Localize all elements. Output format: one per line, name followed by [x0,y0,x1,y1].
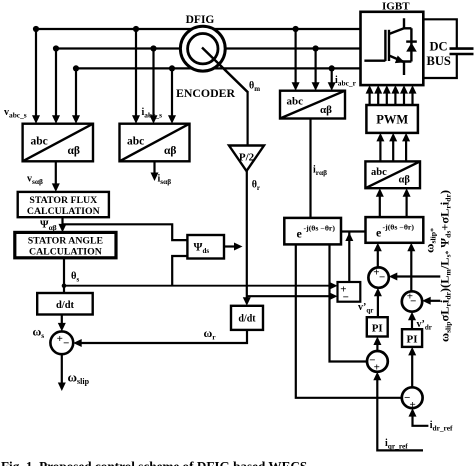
svg-text:ENCODER: ENCODER [176,88,236,100]
svg-text:αβ: αβ [68,145,80,157]
svg-text:αβ: αβ [164,145,176,157]
d/dt box middle [231,306,263,330]
arrow into abc block2 [132,115,140,124]
PWM box [366,105,418,133]
arrow into abc block3 [292,82,300,91]
wire omega_slip output [61,354,63,383]
svg-text:STATOR ANGLE: STATOR ANGLE [28,236,104,247]
svg-text:+: + [57,333,63,345]
DFIG machine circle [180,26,247,92]
wire i_r_alphabeta into left e-j block [309,119,311,218]
arrow i_s_alphabeta dangling [151,173,159,182]
svg-text:-j(θs −θr): -j(θs −θr) [383,224,415,232]
arrow into stator angle box [59,224,67,233]
transistor emitter arrow [395,56,405,64]
wire theta_slip from sum box to e-j blocks [341,232,366,283]
wire theta_s to sum box [64,285,331,287]
wire theta_s tap into psi_ds box [172,256,187,286]
wire stator voltage tap c [75,68,77,117]
svg-text:e: e [376,226,382,240]
wire i_qr_ref input [377,378,423,451]
arrow feedforward into circle2 [422,297,431,305]
wire circle2 to right e-j [410,249,412,292]
wire d/dt left to omega_s circle [61,315,63,327]
wire psi_ds output arrow [224,245,236,247]
arrow circle4 into PI2 [408,347,416,356]
summing circle1 v_qr [368,267,388,288]
arrow theta_s into sum box [329,282,338,290]
wire stator current tap c [171,68,173,117]
svg-text:CALCULATION: CALCULATION [27,206,100,217]
wire stator voltage tap a [35,29,37,118]
svg-text:e: e [297,227,303,241]
wire PI2 to circle2 [411,318,413,330]
wire encoder shaft diagonal [202,48,248,93]
svg-text:ωslipσLridr)(Lm/Ls* Ψds+σLridr: ωslipσLridr)(Lm/Ls* Ψds+σLridr) [440,190,453,342]
wire abc block4 to PWM lines [380,139,406,162]
svg-text:−: − [410,296,416,308]
junction dot theta_s [62,283,67,288]
arrow i_dr_ref into circle4 [409,408,417,417]
svg-text:STATOR FLUX: STATOR FLUX [29,195,97,206]
arrow circle2 into right e-j [407,243,415,252]
wire d/dt output to omega_r [81,330,247,343]
wire i_s_alphabeta output [153,161,155,174]
svg-text:abc: abc [127,136,144,148]
e-j block left [284,218,341,245]
arrow theta_slip up into junction [345,233,353,242]
wire theta_r vertical from P/2 to d/dt [246,170,248,300]
wire rotor current tap b [315,49,317,85]
wire feedforward into circle1 [395,275,440,277]
PI box 1 [367,317,388,336]
svg-text:DC: DC [430,40,448,54]
abc-alphabeta block2 (stator current) [120,124,190,162]
wire stator voltage tap b [55,49,57,118]
abc-alphabeta block4 (rotor voltage) [365,161,420,188]
svg-text:abc: abc [287,96,304,108]
svg-text:−: − [379,271,385,283]
arrow into d/dt middle [243,297,251,306]
summing circle omega_s [50,331,73,354]
abc-alphabeta block1 (stator voltage) [23,124,93,162]
arrows block4 to PWM [376,133,384,142]
wire v_s_alphabeta into flux calc [55,161,57,185]
svg-text:−: − [343,292,349,304]
summing circle4 i_dr [402,387,423,410]
svg-text:d/dt: d/dt [238,314,256,325]
arrow circle3 into PI1 [373,337,381,346]
arrow PI1 into circle1 [374,288,382,297]
arrow theta_r into sum box [329,292,338,300]
wire 3-phase bus line B [56,47,361,49]
STATOR ANGLE CALCULATION box [15,232,116,257]
svg-text:Fig. 1. Proposed control sche: Fig. 1. Proposed control scheme of DFIG … [1,459,307,466]
svg-text:PWM: PWM [376,113,408,127]
arrow i_qr_ref into circle3 [373,372,381,381]
abc-alphabeta block3 (rotor current) [280,91,345,119]
svg-text:d/dt: d/dt [56,300,75,311]
psi_ds box [187,235,224,259]
e-j block right [366,217,424,243]
wire theta_m vertical to P/2 [247,91,249,146]
svg-text:DFIG: DFIG [186,14,215,26]
arrow into stator flux box [52,183,60,192]
wire DC bus rails [423,19,457,78]
summing circle2 v_dr [402,290,422,311]
PI box 2 [402,329,422,347]
svg-text:BUS: BUS [427,54,451,68]
wire flux calc output [61,217,63,226]
arrowheads [32,82,431,416]
arrows PWM to IGBT [366,85,374,94]
wire theta_r tap to sum box [247,295,331,297]
arrows right e-j to block4 [376,188,384,197]
wire rotor current tap c [331,68,333,84]
arrow omega_r into omega_s circle [73,339,82,347]
wire circle3 to PI1 [376,342,378,351]
sum box theta_s minus theta_r [338,282,361,304]
transistor IGBT symbol [364,18,411,75]
svg-text:+: + [410,399,416,411]
svg-text:IGBT: IGBT [382,1,410,13]
wire PI1 to circle1 [377,294,379,318]
wire rotor current tap a [295,29,297,85]
arrow into abc block1 [32,115,40,124]
svg-text:+: + [374,361,380,373]
wire feedforward into circle2 [429,300,440,302]
wire i_dr_ref input [413,414,429,426]
wire i_qr feedback to circle3 [330,244,368,361]
wire right e-j outputs to block4 [380,194,407,218]
svg-text:P/2: P/2 [239,152,255,164]
P/2 triangle [229,146,264,172]
svg-text:CALCULATION: CALCULATION [29,247,102,258]
svg-text:αβ: αβ [399,175,411,186]
STATOR FLUX CALCULATION box [18,192,109,217]
junction dots on bus [33,26,335,288]
arrow PI2 into circle2 [408,312,416,321]
summing circle3 i_qr [367,351,388,373]
wire stator current tap b [152,49,154,118]
diode freewheeling [406,42,417,52]
wire PWM to IGBT gate lines [370,91,413,106]
wire circle1 to right e-j [377,249,379,268]
arrow omega_slip output [58,383,66,392]
wire circle4 to PI2 [411,353,413,388]
arrow circle1 into right e-j [374,243,382,252]
wire 3-phase bus line C [76,67,361,69]
svg-text:PI: PI [407,334,418,346]
svg-text:abc: abc [371,167,387,178]
wire stator current tap a [135,29,137,118]
svg-text:PI: PI [372,323,383,335]
svg-text:-j(θs −θr): -j(θs −θr) [304,225,336,233]
wire 3-phase bus line A [36,28,361,30]
IGBT converter box [361,12,424,85]
arrow psi_ds output dangling [234,243,243,251]
arrow feedforward into circle1 [389,273,398,281]
svg-text:abc: abc [31,136,48,148]
arrow into omega_s circle top [58,323,66,332]
svg-text:αβ: αβ [320,104,332,116]
wire stator angle output theta_s [63,258,65,293]
wire i_dr feedback to circle4 [296,244,402,397]
capacitor DC bus [450,49,474,54]
svg-text:−: − [63,337,69,349]
wire psi_alphabeta tap to psi_ds box [63,224,188,240]
d/dt box left [37,293,92,315]
